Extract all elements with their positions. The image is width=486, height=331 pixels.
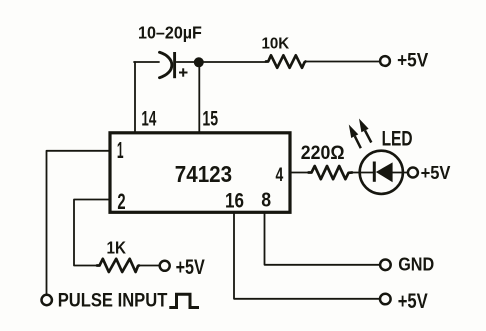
svg-text:+5V: +5V xyxy=(176,255,206,278)
svg-text:2: 2 xyxy=(117,189,125,214)
wire 10K resistor to +5V terminal xyxy=(306,61,380,63)
svg-text:74123: 74123 xyxy=(175,161,232,187)
svg-text:PULSE INPUT: PULSE INPUT xyxy=(58,289,168,311)
resistor R3 1K zigzag xyxy=(97,259,139,272)
svg-text:GND: GND xyxy=(398,253,434,274)
wire 1K resistor to +5V terminal xyxy=(139,265,159,267)
svg-text:10K: 10K xyxy=(262,35,291,52)
capacitor C1 plus polarity mark xyxy=(179,68,188,76)
resistor R2 220 ohm zigzag xyxy=(309,166,353,179)
terminal GND xyxy=(380,260,391,271)
terminal +5V at 1K xyxy=(160,261,170,271)
svg-text:220Ω: 220Ω xyxy=(301,142,345,164)
wire 220 ohm resistor to LED xyxy=(352,172,374,174)
wire pin 4 to 220 ohm resistor xyxy=(292,172,309,174)
IC U1 74123 body xyxy=(110,133,290,213)
svg-text:14: 14 xyxy=(141,106,156,130)
wire pin 2 xyxy=(74,200,109,266)
svg-text:8: 8 xyxy=(261,189,271,212)
junction dot at pin 15 node xyxy=(194,57,204,67)
wire pin 1 xyxy=(47,151,109,294)
svg-text:+5V: +5V xyxy=(397,49,429,71)
terminal PULSE INPUT xyxy=(42,295,52,305)
svg-text:+5V: +5V xyxy=(398,289,428,312)
wire capacitor to 10K resistor xyxy=(177,61,267,63)
svg-text:4: 4 xyxy=(276,164,284,186)
LED emission arrow left xyxy=(349,125,361,149)
LED D1 circle xyxy=(360,151,403,194)
wire pin 15 vertical xyxy=(198,63,200,132)
resistor R1 10K zigzag xyxy=(266,55,306,68)
svg-text:16: 16 xyxy=(225,189,244,213)
wire pin 14 vertical xyxy=(134,62,136,132)
wire top rail left of capacitor xyxy=(134,61,159,63)
terminal +5V bottom xyxy=(380,294,391,305)
svg-text:15: 15 xyxy=(202,107,218,130)
terminal +5V top xyxy=(380,56,390,66)
wire pin 8 to GND terminal xyxy=(265,213,380,265)
svg-text:+5V: +5V xyxy=(421,162,451,183)
svg-text:1: 1 xyxy=(117,138,124,163)
LED D1 anode triangle xyxy=(376,162,393,182)
pulse waveform symbol xyxy=(169,294,199,307)
capacitor C1 curved plate xyxy=(160,52,172,77)
wire LED to +5V terminal xyxy=(393,172,408,174)
svg-text:10–20µF: 10–20µF xyxy=(138,23,202,43)
svg-text:1K: 1K xyxy=(107,238,127,257)
LED D1 cathode bar xyxy=(373,162,376,182)
terminal +5V at LED xyxy=(408,168,418,178)
svg-text:LED: LED xyxy=(382,126,413,150)
capacitor C1 straight plate xyxy=(173,52,176,78)
LED emission arrow right xyxy=(359,119,371,143)
wire pin 16 to bottom +5V terminal xyxy=(234,213,380,299)
